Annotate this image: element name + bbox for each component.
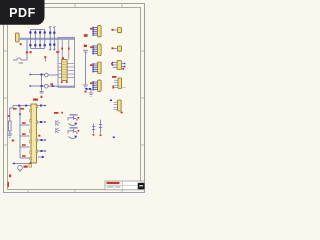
connector P5 (far right col row 5)	[110, 100, 123, 114]
fuse F2	[44, 84, 48, 88]
node dot B	[25, 105, 27, 107]
wire U1 right pin 4	[38, 150, 45, 152]
label red near R1 top	[8, 115, 10, 117]
wire primary lead 1	[61, 40, 63, 60]
varistor RV2	[34, 30, 36, 49]
PDF badge	[0, 0, 45, 25]
label red below GND5	[12, 140, 14, 142]
transistor Q1	[68, 114, 79, 125]
label red lead 2	[68, 48, 70, 50]
resistor R1	[9, 121, 12, 131]
IC U1 (regulator, middle-left)	[30, 104, 38, 163]
diode D2	[53, 26, 55, 50]
wire drop from bus to switch	[21, 40, 27, 60]
wire U1 right pin 1	[38, 105, 45, 107]
wire primary lead 2	[68, 40, 70, 60]
title block	[105, 181, 145, 190]
label red net LIB	[20, 108, 25, 110]
connector P1 (far right col row 1)	[112, 28, 122, 33]
switch SW1	[17, 58, 21, 60]
wire U1 right pin 3	[38, 139, 45, 141]
pin nub below U1	[29, 164, 32, 168]
node dot right 1	[40, 105, 42, 107]
port arrow lower branch	[30, 85, 33, 88]
wire bus (main AC bus)	[19, 38, 75, 40]
wire fuse branch lower	[32, 85, 45, 87]
label red near fuse F2	[51, 83, 53, 85]
node junction upper	[41, 74, 43, 76]
label red pin b	[22, 133, 26, 135]
capacitor C1	[40, 91, 44, 93]
transistor Q3 (circle symbol bottom)	[18, 166, 23, 171]
node dot A	[18, 105, 20, 107]
transformer T1	[58, 57, 74, 83]
port arrow right 2	[45, 121, 47, 123]
capacitor C2 (right chain)	[83, 50, 88, 85]
port arrow upper branch	[30, 73, 33, 76]
wire top rail of varistor row	[30, 29, 44, 31]
label red dot mid column	[61, 112, 63, 114]
label red bottom-left	[9, 175, 11, 178]
label red output net upper	[84, 34, 88, 37]
connector J1 (AC input, top-left)	[16, 33, 22, 45]
node mark small right	[113, 137, 115, 139]
svg-text:PDF: PDF	[9, 6, 36, 20]
label red near switch	[30, 51, 32, 53]
wire stub U1 pin d	[20, 157, 30, 159]
connector J5 (right bank row 4)	[90, 80, 101, 92]
diode D1	[49, 26, 51, 50]
ground GND5	[7, 134, 12, 137]
port arrow right 3	[45, 139, 47, 141]
node dot right 2	[40, 121, 42, 123]
label red pin c	[22, 144, 26, 146]
label red right of diode pair	[56, 51, 59, 53]
node dot lower branch	[52, 85, 54, 87]
label red output net lower	[84, 45, 87, 47]
label red below ground GND3	[85, 91, 87, 93]
node dot right 4	[41, 150, 43, 152]
label red vertical margin text	[8, 182, 10, 187]
sheet background	[0, 0, 149, 198]
varistor RV1	[29, 30, 31, 49]
wire stub U1 pin c	[20, 146, 30, 148]
label red net HD	[13, 108, 17, 110]
logo company	[138, 183, 145, 189]
node dot right 5	[42, 156, 44, 158]
node junction lower	[41, 85, 43, 87]
connector J4 (right bank row 3)	[90, 62, 101, 74]
wire top net into U1	[13, 105, 31, 107]
connector J2 (right bank row 1)	[90, 26, 101, 38]
transistor Q6 (mid column lower)	[56, 128, 60, 133]
port arrow right 1	[45, 104, 47, 106]
wire bottom rail of varistor row	[30, 47, 44, 49]
diode D6 (small, x100)	[99, 120, 102, 134]
connector J3 (right bank row 2)	[90, 44, 101, 56]
box power module outline	[58, 37, 75, 87]
ground GND3 (right chain)	[83, 85, 88, 89]
border zone ticks	[4, 4, 145, 193]
varistor RV4	[44, 30, 46, 49]
label red mid column	[54, 112, 59, 114]
wire U1 right pin 2	[38, 121, 45, 123]
transistor Q5 (mid column upper)	[56, 120, 60, 125]
label red above U1	[33, 99, 38, 101]
connector P2 (far right col row 2)	[112, 46, 122, 51]
wire stub branch node	[44, 59, 46, 62]
node dot right 3	[41, 139, 43, 141]
port arrow right 4	[45, 150, 47, 152]
wire ladder vertical	[19, 106, 21, 159]
arrow mark on ladder	[19, 114, 21, 117]
wire stub U1 pin a	[20, 124, 30, 126]
wire fuse branch upper	[32, 74, 45, 76]
label red near C1	[41, 96, 43, 98]
border frame inner	[8, 8, 141, 190]
label red NC	[24, 166, 28, 168]
wire left drop to R1	[10, 106, 13, 122]
wire vertical branch	[41, 75, 43, 92]
label red pin d	[22, 155, 26, 157]
wire U1 bottom net	[15, 163, 32, 165]
border frame outer	[4, 4, 145, 193]
label red left of varistor row	[26, 51, 28, 53]
wire stub U1 pin b	[20, 135, 30, 137]
ground GND4 below J5	[87, 89, 94, 96]
transistor Q2	[68, 127, 79, 138]
varistor RV3	[39, 30, 41, 49]
connector P3 (far right col row 3)	[111, 61, 125, 70]
wire R1 to ground	[9, 131, 11, 134]
label red branch node	[44, 56, 46, 58]
label red lead 1	[61, 48, 63, 50]
fuse F1	[44, 73, 48, 77]
label red near pin 3	[38, 135, 40, 137]
wire U1 right pin 5	[38, 156, 44, 158]
label red pin a	[22, 122, 26, 124]
arrow mark bottom net	[12, 162, 14, 164]
connector P4 (far right col row 4)	[112, 76, 126, 89]
diode D5 (small, x93)	[92, 124, 95, 134]
